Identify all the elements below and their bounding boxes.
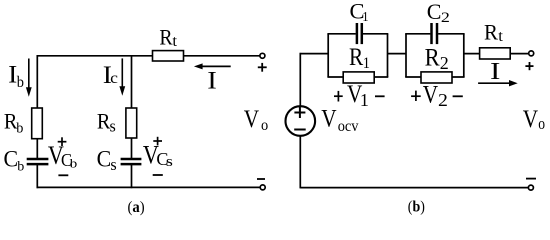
wire (b) bottom horizontal bbox=[300, 187, 528, 189]
minus sign VCs bbox=[153, 174, 163, 176]
label Ic bbox=[103, 61, 118, 89]
arrow Ic bbox=[119, 58, 125, 95]
svg-text:t: t bbox=[498, 27, 503, 46]
svg-text:I: I bbox=[490, 58, 500, 85]
svg-text:b: b bbox=[16, 120, 23, 136]
svg-text:R: R bbox=[349, 44, 364, 72]
wire (a) Rt to terminal bbox=[184, 55, 260, 57]
wire loop2 to Rt bbox=[464, 53, 480, 55]
label Rb bbox=[4, 109, 24, 137]
svg-text:2: 2 bbox=[438, 91, 448, 111]
minus sign (b) terminal bbox=[526, 178, 536, 180]
capacitor C2 bbox=[432, 23, 438, 44]
svg-text:R: R bbox=[484, 20, 499, 45]
wire (b) source to bottom bbox=[299, 136, 301, 188]
svg-text:(a): (a) bbox=[128, 200, 145, 216]
label Cs bbox=[97, 146, 117, 174]
label R2 bbox=[425, 44, 449, 73]
plus sign (a) terminal bbox=[258, 63, 267, 72]
svg-text:2: 2 bbox=[440, 53, 449, 73]
svg-text:R: R bbox=[159, 24, 172, 49]
svg-text:s: s bbox=[110, 155, 116, 174]
plus sign V1 bbox=[334, 91, 343, 102]
wire (a) bottom horizontal bbox=[37, 186, 260, 188]
svg-text:t: t bbox=[172, 31, 177, 50]
wire (a) top horizontal bbox=[37, 55, 153, 57]
label (a) bbox=[128, 200, 145, 216]
svg-text:(b): (b) bbox=[408, 199, 425, 216]
svg-text:V: V bbox=[244, 105, 260, 133]
resistor Rs bbox=[126, 108, 137, 138]
RC loop 1 frame bbox=[327, 34, 388, 77]
svg-text:C: C bbox=[4, 146, 19, 172]
terminal (b) top bbox=[529, 51, 534, 56]
arrow Ib bbox=[26, 59, 32, 97]
minus sign (a) terminal bbox=[257, 178, 265, 180]
svg-text:2: 2 bbox=[441, 9, 450, 26]
plus sign (b) terminal bbox=[525, 62, 533, 70]
label V1 bbox=[347, 80, 369, 109]
svg-text:C: C bbox=[97, 146, 112, 172]
resistor R2 bbox=[421, 72, 452, 83]
svg-text:b: b bbox=[17, 74, 25, 92]
plus sign V2 bbox=[411, 91, 421, 101]
resistor Rt (b) bbox=[480, 48, 511, 59]
wire (a) Cb to bottom bbox=[36, 165, 38, 189]
svg-text:V: V bbox=[523, 106, 539, 134]
arrow I (b) bbox=[478, 80, 518, 86]
capacitor Cb bbox=[27, 159, 49, 164]
label R1 bbox=[349, 44, 370, 73]
wire between loops bbox=[388, 53, 407, 55]
wire (a) Rb to Cb bbox=[36, 139, 38, 159]
label I (a) bbox=[207, 66, 217, 94]
svg-text:V: V bbox=[321, 105, 337, 133]
svg-text:R: R bbox=[425, 44, 440, 71]
svg-text:b: b bbox=[17, 159, 24, 174]
terminal (a) top bbox=[260, 53, 265, 58]
label Rs bbox=[97, 109, 116, 136]
minus sign V2 bbox=[453, 95, 463, 97]
wire (a) Rs to Cs bbox=[131, 138, 133, 158]
svg-text:V: V bbox=[423, 81, 439, 109]
capacitor C1 bbox=[357, 23, 362, 44]
svg-text:b: b bbox=[70, 157, 77, 171]
RC loop 2 frame bbox=[405, 34, 464, 77]
svg-text:o: o bbox=[261, 116, 269, 134]
svg-text:ocv: ocv bbox=[338, 117, 359, 135]
label Rt (b) bbox=[484, 20, 503, 45]
label (b) bbox=[408, 199, 425, 216]
svg-text:o: o bbox=[538, 115, 545, 134]
label C1 bbox=[350, 0, 369, 24]
terminal (a) bottom bbox=[260, 185, 265, 190]
svg-text:1: 1 bbox=[360, 90, 369, 110]
wire (b) source to loop1 bbox=[300, 53, 330, 55]
label VCs bbox=[143, 142, 173, 170]
svg-text:s: s bbox=[166, 153, 173, 170]
wire (a) middle branch vertical bbox=[131, 56, 133, 109]
label VCb bbox=[48, 142, 77, 171]
svg-text:c: c bbox=[110, 69, 118, 87]
svg-text:C: C bbox=[427, 0, 442, 24]
plus sign source bbox=[294, 107, 305, 118]
terminal (b) bottom bbox=[528, 185, 533, 190]
label Ib bbox=[8, 61, 24, 92]
svg-text:I: I bbox=[207, 66, 217, 94]
label C2 bbox=[427, 0, 450, 26]
label Vo (b) bbox=[523, 106, 545, 134]
svg-text:s: s bbox=[110, 116, 116, 135]
minus sign V1 bbox=[375, 95, 385, 97]
svg-text:1: 1 bbox=[363, 54, 370, 72]
resistor Rb bbox=[32, 108, 43, 139]
label I (b) bbox=[490, 58, 500, 85]
wire (b) source to top bbox=[299, 53, 301, 106]
plus sign VCs bbox=[153, 137, 162, 146]
minus sign source bbox=[294, 129, 306, 131]
wire (a) left vertical bbox=[36, 55, 38, 108]
capacitor Cs bbox=[121, 159, 142, 164]
label Rt (a) bbox=[159, 24, 177, 49]
minus sign VCb bbox=[58, 174, 68, 176]
label Vo (a) bbox=[244, 105, 269, 134]
resistor R1 bbox=[343, 72, 374, 83]
wire (a) Cs to bottom bbox=[131, 165, 133, 189]
label V2 bbox=[423, 81, 448, 111]
label Vocv bbox=[321, 105, 359, 135]
resistor Rt (a) bbox=[153, 51, 184, 61]
arrow I (a) bbox=[194, 63, 231, 69]
label Cb bbox=[4, 146, 25, 174]
svg-text:1: 1 bbox=[362, 8, 368, 24]
wire Rt to terminal (b) bbox=[510, 53, 528, 55]
plus sign VCb bbox=[58, 137, 67, 146]
voltage source Vocv bbox=[286, 106, 316, 136]
